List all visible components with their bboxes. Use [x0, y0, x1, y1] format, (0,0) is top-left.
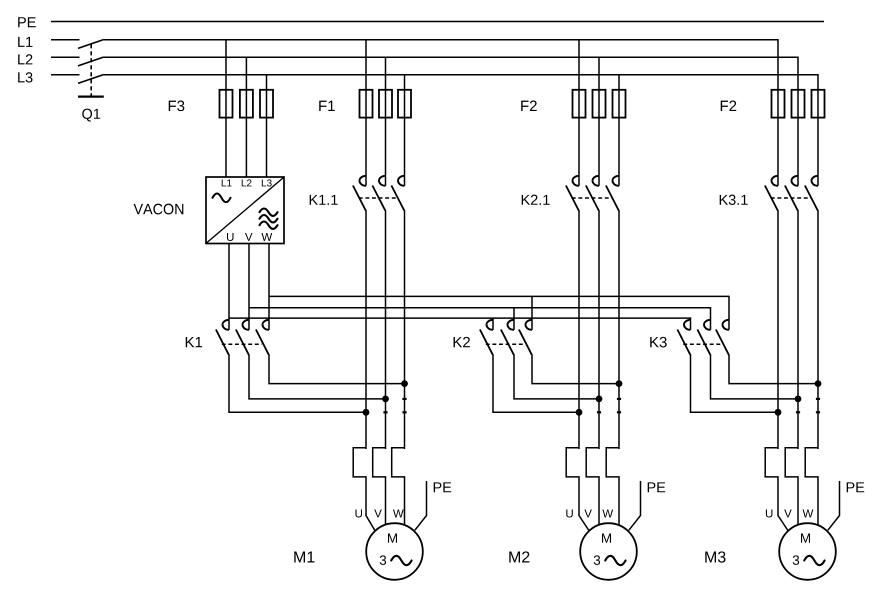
- junction node U1: [363, 409, 370, 416]
- junction node V2: [596, 396, 603, 403]
- wire VACON output W to K1: [268, 244, 270, 330]
- junction node V3: [795, 396, 802, 403]
- pin U (M2): [566, 509, 573, 517]
- pin V (M2): [584, 509, 592, 517]
- wire K1 pole1 to node: [229, 354, 366, 412]
- label M3: [705, 551, 725, 562]
- wire L1 drop through F2 to K3.1: [777, 90, 779, 186]
- pin W (VACON output): [261, 233, 272, 241]
- wire K3 pole3 to node: [729, 354, 818, 383]
- disconnect switch Q1: [78, 40, 104, 97]
- fuse F2 pole L3: [812, 90, 825, 118]
- wire motor M3 lead W (jog): [805, 448, 818, 527]
- pin V (VACON output): [245, 233, 253, 241]
- junction node W3: [815, 380, 822, 387]
- wire motor M1 lead W (jog): [392, 448, 405, 527]
- pin V (M3): [784, 509, 792, 517]
- AC sine symbol (rectifier side): [213, 193, 231, 202]
- wire K2.1 pole1 down: [578, 210, 580, 449]
- wire L3 feed: [51, 74, 80, 76]
- wire drive bus W (to K2/K3 pole3): [269, 296, 729, 330]
- contactor K2 (drive output): [480, 320, 532, 355]
- pin V (M1): [374, 509, 382, 517]
- label L2: [18, 54, 32, 64]
- wire K1.1 pole1 down: [365, 210, 367, 449]
- label Q1: [82, 109, 100, 122]
- junction node W2: [616, 380, 623, 387]
- fuse F1 pole L3: [398, 90, 411, 118]
- wire drive bus V (to K2/K3 pole2): [249, 307, 711, 330]
- wire K3.1 pole1 down: [777, 210, 779, 449]
- wire motor M1 lead V (jog): [373, 448, 386, 525]
- wire L2 drop through F2 to K3.1: [797, 90, 799, 186]
- fuse F1 pole L2: [379, 90, 392, 118]
- pin W (M3): [803, 509, 814, 517]
- label L3: [18, 72, 32, 82]
- wire L3 bus: [104, 74, 818, 90]
- wire K3.1 pole2 down: [796, 210, 800, 449]
- wire L1 drop to F3 and VACON: [225, 40, 227, 178]
- fuse F3 pole L3: [260, 90, 273, 118]
- label L1: [18, 37, 32, 47]
- fuse F2 pole L2: [792, 90, 805, 118]
- pin U (M1): [355, 509, 362, 517]
- wire VACON output U to K1: [228, 244, 230, 330]
- wire L3 drop through F1 to K1.1: [404, 75, 406, 186]
- fuse F2 pole L1: [573, 90, 586, 118]
- label M1: [294, 551, 314, 562]
- wire K2.1 pole3 down: [617, 210, 621, 449]
- wire L2 drop through F1 to K1.1: [385, 57, 387, 186]
- wire L3 drop through F2 to K3.1: [817, 90, 819, 186]
- wire K1.1 pole3 down: [402, 210, 406, 449]
- wire L2 bus: [104, 57, 798, 90]
- label K1: [186, 337, 202, 347]
- motor M1 (3-phase): [366, 523, 423, 580]
- fuse F2 pole L1: [772, 90, 785, 118]
- label F3: [169, 101, 185, 112]
- label F2: [721, 101, 737, 111]
- label M2: [509, 551, 529, 562]
- wire L1 drop through F1 to K1.1: [365, 40, 367, 186]
- frequency converter U1 VACON box: [206, 177, 284, 244]
- wire motor M2 lead V (jog): [586, 448, 599, 525]
- fuse F2 pole L2: [593, 90, 606, 118]
- label K1.1: [310, 195, 338, 205]
- wire L2 drop to F3 and VACON: [245, 57, 247, 178]
- label K2: [454, 337, 470, 347]
- wire K2.1 pole2 down: [597, 210, 601, 449]
- fuse F1 pole L1: [360, 90, 373, 118]
- contactor K1.1 (bypass): [353, 176, 405, 211]
- wire K1 pole3 to node: [269, 354, 405, 383]
- junction node U2: [576, 409, 583, 416]
- wire PE lead (M1): [415, 481, 427, 530]
- wire PE lead (M3): [828, 481, 840, 530]
- wire K2 pole3 stub: [531, 296, 533, 329]
- motor M2 (3-phase): [580, 523, 637, 580]
- label PE: [18, 17, 36, 27]
- wire L1 feed: [51, 39, 80, 41]
- wire drive bus U (to K2/K3 pole1): [229, 317, 691, 329]
- fuse F2 pole L3: [613, 90, 626, 118]
- label K2.1: [522, 195, 550, 205]
- label PE (M2): [648, 482, 666, 492]
- motor M3 (3-phase): [779, 523, 836, 580]
- pin W (M2): [602, 509, 613, 517]
- contactor K1 (drive output): [216, 320, 269, 355]
- wire K3 pole1 to node: [691, 354, 779, 412]
- wire K3.1 pole3 down: [816, 210, 820, 449]
- pin L2 (VACON input): [242, 179, 252, 186]
- label PE (M3): [847, 482, 865, 492]
- wire motor M3 lead U (jog): [765, 448, 788, 531]
- wire motor M2 lead W (jog): [606, 448, 619, 527]
- wire L1 bus: [104, 39, 778, 90]
- pin L1 (VACON input): [222, 180, 232, 187]
- pin U (M3): [766, 509, 773, 517]
- label F2: [521, 101, 537, 111]
- contactor K3 (drive output): [677, 320, 729, 355]
- wire L2 drop through F2 to K2.1: [598, 57, 600, 186]
- wire VACON output V to K1: [248, 244, 250, 330]
- wire L3 drop to F3 and VACON: [266, 75, 268, 178]
- label K3: [650, 337, 666, 348]
- output filter wave symbol: [260, 209, 278, 229]
- wire K2 pole2 stub: [513, 308, 515, 330]
- label VACON: [134, 204, 184, 215]
- fuse F3 pole L2: [240, 90, 253, 118]
- wire K2 pole2 to node: [514, 354, 599, 399]
- wire L2 feed: [51, 56, 80, 58]
- wire L1 drop through F2 to K2.1: [578, 40, 580, 186]
- junction node U3: [775, 409, 782, 416]
- wire motor M1 lead U (jog): [353, 448, 375, 531]
- wire K2 pole1 to node: [493, 354, 579, 412]
- wire K1 pole2 to node: [249, 354, 386, 399]
- contactor K3.1 (bypass): [765, 176, 818, 211]
- label F1: [319, 101, 335, 111]
- wire K2 pole3 to node: [532, 354, 619, 383]
- pin U (VACON output): [227, 233, 234, 241]
- wire motor M3 lead V (jog): [785, 448, 798, 525]
- label K3.1: [720, 195, 748, 205]
- pin L3 (VACON input): [262, 179, 272, 186]
- contactor K2.1 (bypass): [566, 176, 619, 211]
- fuse F3 pole L1: [220, 90, 233, 118]
- wire K3 pole2 to node: [711, 354, 799, 399]
- wire L3 drop through F2 to K2.1: [618, 75, 620, 186]
- wire motor M2 lead U (jog): [566, 448, 589, 531]
- wire K1.1 pole2 down: [383, 210, 387, 449]
- wire PE lead (M2): [629, 481, 641, 530]
- junction node V1: [382, 396, 389, 403]
- wire K2 pole1 stub: [492, 318, 494, 330]
- wire PE bus: [51, 21, 824, 23]
- label PE (M1): [434, 482, 452, 492]
- pin W (M1): [393, 509, 404, 517]
- junction node W1: [401, 380, 408, 387]
